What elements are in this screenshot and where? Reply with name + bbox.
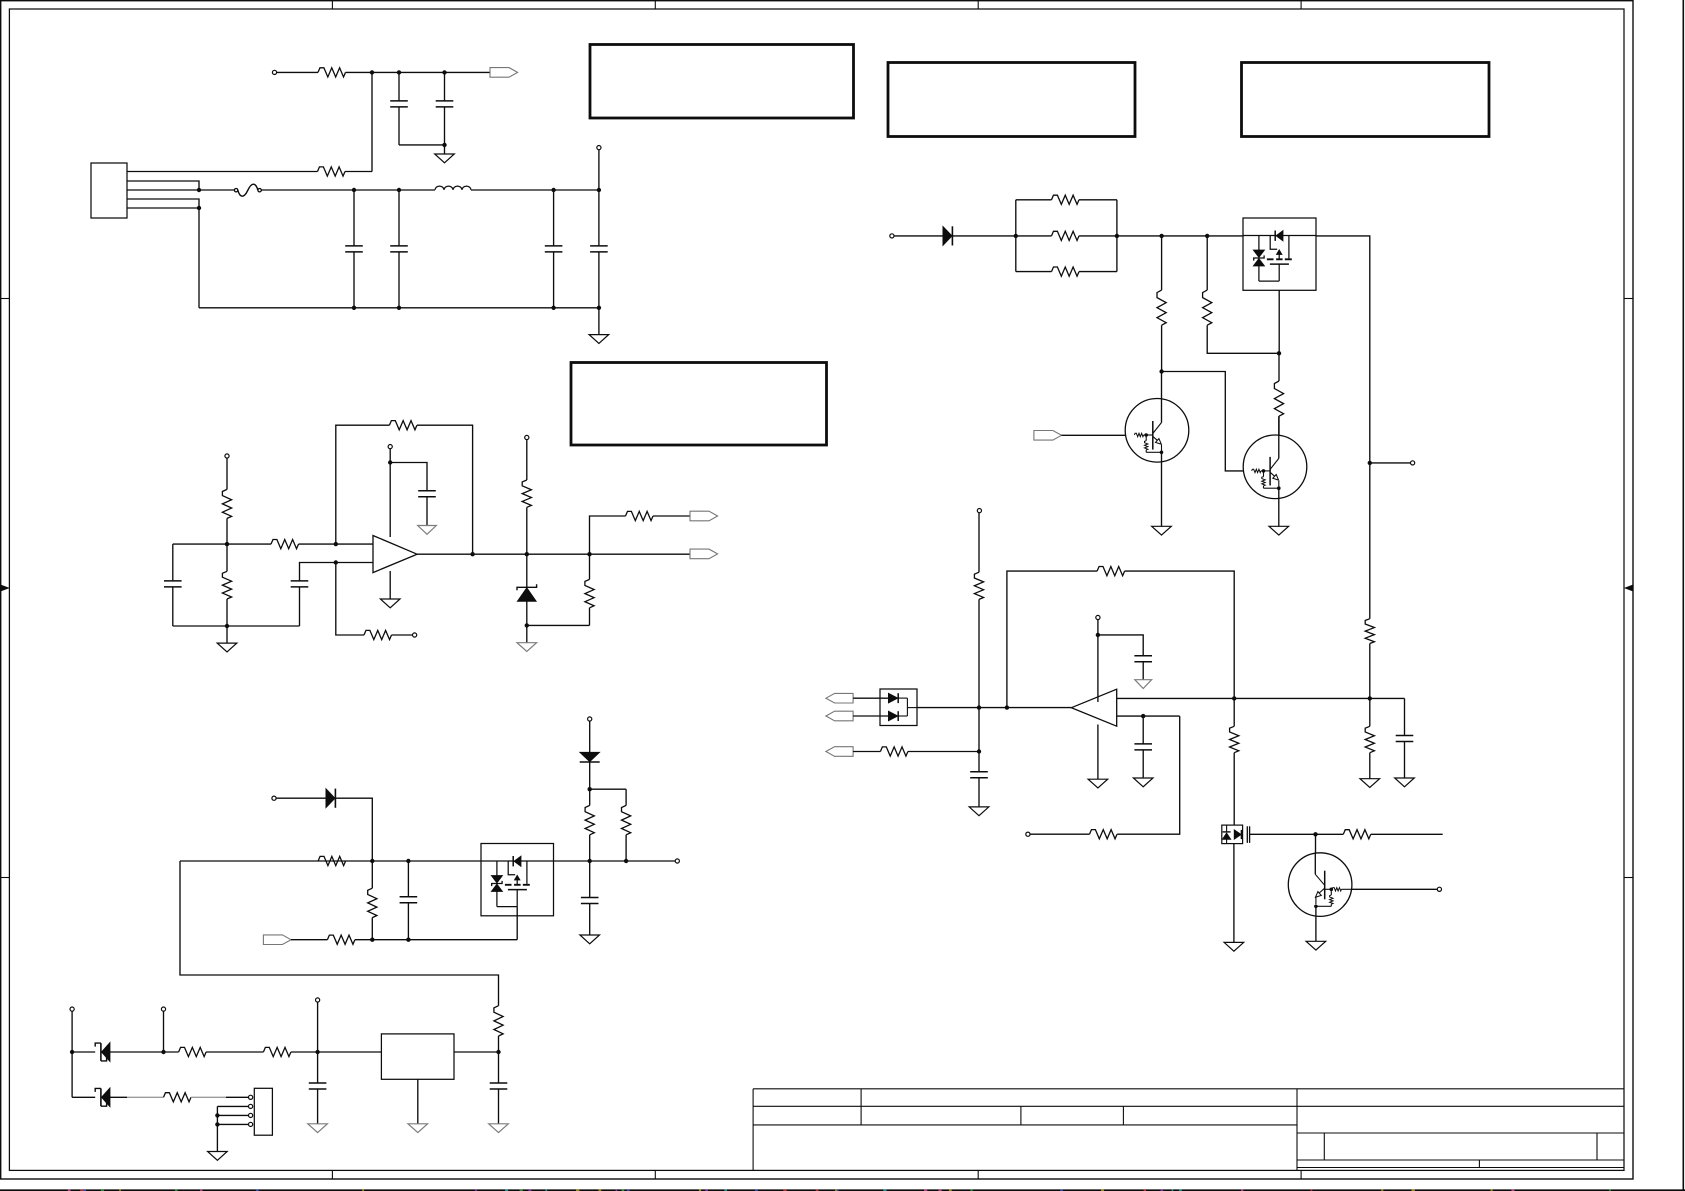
wire [1079, 199, 1117, 201]
wire [917, 707, 979, 709]
ground [308, 1124, 328, 1133]
terminal VCC4 [1096, 615, 1100, 619]
wire [317, 1089, 319, 1124]
terminal J13 [1411, 461, 1415, 465]
wire pin1 [127, 171, 318, 173]
resistor R27 [880, 747, 908, 756]
capacitor C7 [418, 491, 436, 497]
wire [1079, 235, 1117, 237]
wire [206, 1051, 263, 1053]
resistor R9 [626, 511, 654, 520]
resistor R21 [1052, 231, 1080, 240]
wire [1016, 235, 1052, 237]
node E [197, 188, 201, 192]
right margin centre arrow [1625, 585, 1632, 591]
output flag OUT6 [826, 747, 853, 757]
node B4 [406, 859, 410, 863]
wire [346, 71, 491, 73]
output flag OUT2 [690, 511, 718, 521]
capacitor C12 [970, 772, 988, 778]
wire [894, 235, 943, 237]
wire pin4 [127, 199, 199, 208]
wire [335, 798, 372, 861]
resistor R8 [522, 480, 531, 507]
node V [525, 552, 529, 556]
wire [1125, 571, 1235, 698]
mosfet Q1 internals [481, 856, 554, 907]
op-amp V- lead [389, 571, 391, 599]
node C5 [315, 1050, 319, 1054]
wire pin3 [127, 189, 199, 191]
ground [1269, 526, 1289, 535]
node B5 [161, 1050, 165, 1054]
node U [388, 460, 392, 464]
node L [397, 306, 401, 310]
wire [1316, 833, 1344, 835]
wire [1233, 844, 1235, 943]
wire [163, 1011, 165, 1052]
node A5 [70, 1050, 74, 1054]
note box 3 [1242, 63, 1490, 137]
terminal J7 [675, 859, 679, 863]
wire [978, 778, 980, 807]
wire [498, 1089, 500, 1124]
wire pin4 [217, 1123, 248, 1125]
wire [978, 599, 980, 751]
zener D5 [95, 1088, 110, 1107]
capacitor C4a [390, 246, 408, 252]
wire [553, 252, 555, 308]
resistor R13 lead [371, 861, 373, 888]
resistor R16 lead [625, 789, 627, 805]
wire pin2 [127, 181, 199, 190]
terminal VCC1 [388, 445, 392, 449]
comparator V- lead [1097, 725, 1099, 780]
node A [370, 70, 374, 74]
wire [345, 171, 372, 173]
mosfet Q2 box [1243, 218, 1316, 290]
node E6 [1368, 461, 1372, 465]
bottom margin zone ticks [332, 1170, 1301, 1179]
wire [392, 634, 413, 636]
resistor R24 [1157, 290, 1166, 325]
wire [498, 1036, 500, 1052]
wire [261, 189, 435, 191]
node M [551, 306, 555, 310]
wire [407, 903, 409, 940]
output flag OUT1 [490, 68, 518, 78]
capacitor C2 [436, 101, 454, 107]
wire [1352, 888, 1437, 890]
wire [1404, 742, 1406, 779]
ground [435, 154, 455, 163]
node T [470, 552, 474, 556]
wire [653, 515, 690, 517]
diode D6 [943, 226, 952, 245]
left loop wire [180, 861, 499, 1006]
node D [442, 143, 446, 147]
node A6 [1014, 234, 1018, 238]
pin circle 1 [249, 1095, 253, 1099]
ground [1395, 778, 1415, 787]
capacitor C12 lead [978, 752, 980, 772]
wire [1161, 452, 1163, 526]
wire [853, 751, 880, 753]
capacitor C9 [581, 898, 599, 904]
wire [226, 518, 228, 544]
wire [598, 150, 600, 190]
resistor R32 lead [1233, 698, 1235, 726]
node S [334, 560, 338, 564]
comparator U3 [1071, 689, 1116, 726]
wire [371, 72, 373, 171]
wire [71, 1011, 73, 1052]
wire [527, 624, 590, 626]
ground [489, 1124, 509, 1133]
node E7 [1368, 696, 1372, 700]
ground [380, 599, 400, 608]
wire bus [216, 1106, 218, 1151]
resistor R10 [585, 579, 594, 607]
resistor R33 [1343, 830, 1371, 839]
wire [72, 1096, 95, 1098]
wire [589, 835, 591, 861]
wire [1079, 271, 1117, 273]
wire [526, 440, 528, 480]
resistor R26 lead [1278, 353, 1280, 381]
capacitor C15 [1396, 736, 1414, 742]
zener D4 [95, 1043, 110, 1062]
wire [277, 71, 318, 73]
wire [226, 599, 228, 626]
node B7 [977, 749, 981, 753]
terminal J6 [272, 796, 276, 800]
terminal J9 [161, 1007, 165, 1011]
node P [225, 542, 229, 546]
capacitor C8 [400, 897, 418, 903]
resistor R10 lead [589, 554, 591, 579]
wire [1016, 199, 1052, 201]
page bottom edge line [0, 1189, 1685, 1191]
wire [590, 516, 626, 554]
wire [444, 72, 446, 101]
feedback wire [1007, 571, 1097, 708]
capacitor C1 [390, 101, 408, 107]
wire [1278, 488, 1280, 526]
node R [225, 624, 229, 628]
node A7 [977, 705, 981, 709]
terminal J15 [1437, 887, 1441, 891]
resistor R26 [1274, 381, 1283, 416]
output flag OUT5 [826, 711, 853, 721]
wire [454, 1051, 499, 1053]
wire [589, 721, 591, 752]
resistor R1 [318, 68, 346, 77]
transistor Q4 [1243, 416, 1307, 498]
wire [526, 554, 528, 587]
capacitor C3 lead [553, 190, 555, 246]
wire [371, 918, 373, 940]
ground [1224, 942, 1244, 951]
wire [589, 762, 591, 789]
node J [597, 188, 601, 192]
wire [417, 425, 473, 554]
node G4 [588, 787, 592, 791]
wire [1315, 834, 1317, 853]
node F [352, 188, 356, 192]
wire [398, 107, 400, 145]
wire [526, 625, 528, 642]
ground [1306, 941, 1326, 950]
node E5 [215, 1113, 219, 1117]
mosfet Q5 box [1222, 825, 1243, 844]
wire pin2 [217, 1105, 248, 1107]
right margin zone ticks [1624, 299, 1633, 878]
wire [276, 797, 326, 799]
capacitor C6 [291, 581, 309, 587]
node D4 [406, 938, 410, 942]
mosfet Q1 box [481, 844, 554, 916]
left margin zone ticks [1, 299, 10, 878]
resistor R18 [263, 1047, 291, 1056]
page right edge line [1682, 0, 1684, 1191]
capacitor C13 lead [1142, 716, 1144, 744]
ground [580, 935, 600, 944]
fuse F1 [234, 184, 261, 196]
wire [1016, 271, 1052, 273]
resistor R30 [1090, 830, 1118, 839]
wire [398, 252, 400, 308]
wire fet source [1278, 290, 1280, 353]
ground [1088, 779, 1108, 788]
wire [598, 308, 600, 335]
input flag IN1 [263, 935, 291, 945]
resistor R11 [318, 856, 346, 865]
output flag OUT3 [690, 549, 718, 559]
capacitor C9 lead [589, 861, 591, 898]
wire [399, 144, 445, 146]
wire [1404, 698, 1406, 735]
regulator gnd lead [417, 1079, 419, 1124]
resistor R2 [318, 167, 346, 176]
wire output [417, 553, 690, 555]
wire [1142, 662, 1144, 680]
wire [598, 252, 600, 308]
ground [408, 1124, 428, 1133]
pin circle 3 [249, 1113, 253, 1117]
wire [390, 463, 427, 491]
resistor R5 [222, 571, 231, 599]
note box 2 [888, 63, 1135, 137]
resistor R22 [1052, 267, 1080, 276]
wire [1117, 235, 1243, 237]
node C4 [370, 938, 374, 942]
resistor R13 [368, 888, 377, 917]
node D5 [496, 1050, 500, 1054]
node E4 [588, 859, 592, 863]
resistor R6 [389, 421, 417, 430]
mosfet Q5 internals [1223, 825, 1250, 844]
input flag IN2 [1034, 431, 1062, 441]
wire [1062, 434, 1135, 436]
resistor R25 lead [1206, 236, 1208, 290]
resistor R24 lead [1161, 236, 1163, 290]
wire [444, 107, 446, 145]
wire bottom rail [199, 307, 599, 309]
ground [1133, 778, 1153, 787]
wire [199, 189, 236, 191]
wire gate [516, 907, 518, 940]
node D6n [1205, 234, 1209, 238]
wire down to Rg [336, 563, 364, 636]
resistor R17 [179, 1047, 207, 1056]
resistor R14 [327, 935, 355, 944]
resistor R19 [164, 1093, 192, 1102]
capacitor C5 [164, 581, 182, 587]
ground [217, 643, 237, 652]
ground [1135, 680, 1152, 689]
node Q [334, 542, 338, 546]
node N [597, 306, 601, 310]
capacitor C3a lead [353, 190, 355, 246]
wire [625, 835, 627, 861]
wire [299, 543, 374, 545]
wire gate [1250, 833, 1316, 835]
left margin centre arrow [1, 585, 8, 591]
wire [1371, 833, 1443, 835]
capacitor C10 [309, 1083, 327, 1089]
wire [1278, 416, 1280, 459]
capacitor C3a [345, 246, 363, 252]
wire - input [1117, 715, 1180, 717]
wire [110, 1051, 179, 1053]
wire pin5 [127, 207, 199, 209]
op-amp U1 [373, 536, 417, 573]
capacitor C11 lead [498, 1052, 500, 1083]
diode D2 [326, 789, 335, 808]
wire [589, 904, 591, 936]
wire bottom [173, 625, 300, 627]
capacitor C11 [490, 1083, 508, 1089]
resistor R4 [271, 540, 299, 549]
ground [517, 643, 537, 652]
node H [197, 206, 201, 210]
wire [1207, 325, 1279, 353]
wire [526, 601, 528, 625]
ground [589, 335, 609, 344]
wire [979, 707, 1071, 709]
wire pin3 [217, 1114, 248, 1116]
capacitor C14 [1134, 656, 1152, 662]
wire [355, 939, 517, 941]
wire [526, 507, 528, 554]
ground [1152, 526, 1172, 535]
ground [208, 1152, 228, 1161]
wire [853, 697, 888, 699]
node X [525, 623, 529, 627]
wire [554, 860, 678, 862]
node G7 [1096, 633, 1100, 637]
regulator U2 [381, 1034, 454, 1079]
connector J2 [91, 163, 127, 218]
wire [172, 544, 174, 581]
resistor R7 [364, 630, 392, 639]
wire [173, 543, 271, 545]
node W [587, 552, 591, 556]
resistor R20 [1052, 195, 1080, 204]
wire to Q4 base [1162, 372, 1252, 471]
wire [1369, 753, 1371, 779]
node F6 [1159, 369, 1163, 373]
resistor R25 [1203, 290, 1212, 325]
wire [1142, 750, 1144, 778]
transistor Q6 [1288, 853, 1352, 917]
wire [426, 497, 428, 526]
resistor R3 [222, 489, 231, 518]
wire loop [1117, 716, 1180, 834]
terminal J4 [225, 454, 229, 458]
terminal J10 [316, 998, 320, 1002]
wire [1233, 753, 1235, 825]
wire [300, 563, 336, 581]
top margin zone ticks [332, 1, 1301, 9]
wire [1161, 325, 1163, 371]
wire [589, 608, 591, 626]
dual diode D7 internals [889, 693, 918, 721]
capacitor C4 lead [598, 190, 600, 246]
terminal VCC3 [977, 509, 981, 513]
resistor R32 [1230, 726, 1239, 752]
node G6 [1277, 351, 1281, 355]
resistor R31 [1365, 726, 1374, 752]
wire [71, 1052, 73, 1097]
diode D3 schottky [580, 752, 600, 762]
terminal VCC2 [525, 435, 529, 439]
node K [352, 306, 356, 310]
wire [1316, 236, 1370, 619]
wire [291, 939, 327, 941]
wire [444, 145, 446, 154]
node B6 [1115, 234, 1119, 238]
terminal J14 [1026, 832, 1030, 836]
pin circle 2 [249, 1104, 253, 1108]
wire [191, 1096, 249, 1098]
resistor R12 [494, 1006, 503, 1036]
terminal J3 [597, 146, 601, 150]
capacitor C10 lead [317, 1052, 319, 1083]
terminal VIN2 [588, 717, 592, 721]
node A8 [1313, 832, 1317, 836]
note box 1 [590, 45, 854, 119]
node D7n [1232, 696, 1236, 700]
terminal J12 [890, 234, 894, 238]
wire [1097, 620, 1099, 702]
wire [72, 1051, 95, 1053]
connector J11 [254, 1088, 272, 1135]
parallel R network verticals [1016, 200, 1117, 272]
resistor R15 lead [589, 789, 591, 805]
wire [291, 1051, 382, 1053]
resistor R5 lead [226, 544, 228, 571]
node A4 [370, 859, 374, 863]
node F4 [624, 859, 628, 863]
capacitor C13 [1134, 744, 1152, 750]
resistor R28 [974, 572, 983, 599]
mosfet Q2 internals [1243, 231, 1316, 282]
wire [1030, 833, 1090, 835]
wire [389, 449, 391, 537]
wire [317, 1002, 319, 1052]
